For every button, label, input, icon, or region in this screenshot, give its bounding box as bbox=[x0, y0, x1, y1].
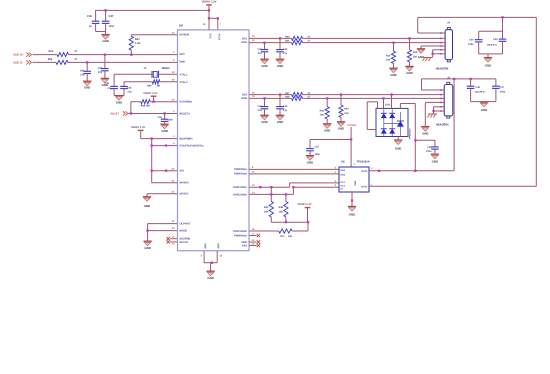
svg-text:100n: 100n bbox=[500, 91, 506, 94]
svg-text:100n: 100n bbox=[109, 25, 115, 28]
svg-text:EXTMEMn: EXTMEMn bbox=[180, 101, 193, 104]
svg-text:GND: GND bbox=[422, 132, 428, 136]
svg-text:C39: C39 bbox=[283, 48, 288, 51]
svg-text:R90: R90 bbox=[147, 84, 152, 87]
svg-text:GND: GND bbox=[84, 86, 90, 90]
svg-text:27p: 27p bbox=[283, 52, 288, 55]
svg-text:GND: GND bbox=[116, 100, 122, 104]
svg-text:GND: GND bbox=[307, 161, 313, 165]
svg-text:R38: R38 bbox=[285, 96, 290, 99]
svg-text:GND: GND bbox=[261, 120, 267, 124]
svg-text:GND: GND bbox=[406, 71, 412, 75]
svg-text:OUT1: OUT1 bbox=[361, 186, 368, 189]
svg-text:100n: 100n bbox=[315, 153, 321, 156]
svg-text:GND: GND bbox=[481, 108, 487, 112]
svg-text:DP3: DP3 bbox=[242, 244, 248, 247]
svg-text:C37: C37 bbox=[109, 15, 114, 18]
svg-text:GND: GND bbox=[102, 39, 108, 43]
svg-text:EN1: EN1 bbox=[341, 169, 346, 172]
svg-text:MODE: MODE bbox=[180, 230, 188, 233]
svg-text:OC1: OC1 bbox=[341, 181, 346, 184]
svg-text:15K: 15K bbox=[413, 55, 418, 58]
svg-text:OUT2: OUT2 bbox=[361, 170, 368, 173]
svg-text:RESET: RESET bbox=[111, 113, 120, 116]
svg-text:C45: C45 bbox=[493, 38, 498, 41]
svg-text:OC2: OC2 bbox=[341, 184, 346, 187]
svg-text:15K: 15K bbox=[279, 210, 284, 213]
svg-text:PWRON2n: PWRON2n bbox=[234, 173, 247, 176]
svg-text:GND: GND bbox=[144, 246, 150, 250]
svg-text:GND: GND bbox=[204, 243, 207, 249]
svg-text:R40: R40 bbox=[264, 206, 269, 209]
svg-text:VDDIO 3.3V: VDDIO 3.3V bbox=[143, 92, 158, 95]
svg-text:15K: 15K bbox=[386, 59, 391, 62]
svg-text:27p: 27p bbox=[128, 91, 133, 94]
svg-text:C41: C41 bbox=[80, 70, 85, 73]
svg-text:VDDIO 3.3V: VDDIO 3.3V bbox=[202, 1, 217, 4]
svg-text:EECLK: EECLK bbox=[180, 241, 189, 244]
svg-text:RESETn: RESETn bbox=[180, 112, 191, 115]
svg-text:GND: GND bbox=[324, 128, 330, 132]
svg-text:GND: GND bbox=[485, 63, 491, 67]
svg-text:R46: R46 bbox=[279, 206, 284, 209]
svg-text:27p: 27p bbox=[107, 87, 112, 90]
svg-text:EN2: EN2 bbox=[341, 173, 346, 176]
svg-text:GND: GND bbox=[161, 129, 167, 133]
svg-text:R44: R44 bbox=[344, 108, 349, 111]
svg-text:GND: GND bbox=[144, 204, 150, 208]
svg-text:GND: GND bbox=[277, 120, 283, 124]
svg-text:C46: C46 bbox=[476, 86, 481, 89]
svg-text:GND: GND bbox=[277, 64, 283, 68]
svg-text:27p: 27p bbox=[258, 52, 263, 55]
svg-text:120uF6.3v: 120uF6.3v bbox=[487, 43, 498, 46]
svg-text:15K: 15K bbox=[264, 210, 269, 213]
svg-text:R30: R30 bbox=[285, 36, 290, 39]
svg-text:R35: R35 bbox=[413, 51, 418, 54]
svg-text:HEADER6: HEADER6 bbox=[436, 123, 449, 126]
svg-text:VDDIO 3.3V: VDDIO 3.3V bbox=[131, 126, 146, 129]
svg-text:PWRON1n: PWRON1n bbox=[234, 168, 247, 171]
svg-text:1M: 1M bbox=[157, 84, 160, 87]
svg-text:DP2: DP2 bbox=[242, 94, 248, 97]
svg-text:GND: GND bbox=[418, 55, 424, 59]
svg-text:DP0: DP0 bbox=[180, 53, 186, 56]
svg-text:GND: GND bbox=[261, 64, 267, 68]
svg-text:OVRCUR2n: OVRCUR2n bbox=[233, 193, 248, 196]
svg-text:PWRON3n: PWRON3n bbox=[234, 234, 247, 237]
svg-text:27p: 27p bbox=[283, 109, 288, 112]
svg-text:USB_D-: USB_D- bbox=[13, 62, 23, 65]
svg-text:DA1: DA1 bbox=[385, 104, 391, 107]
svg-text:27p: 27p bbox=[98, 71, 103, 74]
svg-text:DM2: DM2 bbox=[242, 97, 248, 100]
svg-text:GND: GND bbox=[432, 160, 438, 164]
svg-text:XTAL2: XTAL2 bbox=[180, 81, 189, 84]
svg-text:27p: 27p bbox=[80, 74, 85, 77]
svg-text:C47: C47 bbox=[500, 86, 505, 89]
svg-text:TPS2042A: TPS2042A bbox=[357, 161, 370, 164]
svg-text:100n: 100n bbox=[426, 150, 432, 153]
svg-text:GND: GND bbox=[395, 146, 401, 150]
svg-text:NPINT1: NPINT1 bbox=[180, 193, 190, 196]
svg-text:OVRCUR1n: OVRCUR1n bbox=[233, 186, 248, 189]
svg-text:R87: R87 bbox=[135, 38, 140, 41]
svg-text:DM0: DM0 bbox=[180, 61, 186, 64]
svg-text:USB_D+: USB_D+ bbox=[13, 53, 24, 56]
svg-text:C38: C38 bbox=[257, 48, 262, 51]
svg-text:DM1: DM1 bbox=[242, 41, 248, 44]
svg-text:TPD4S012: TPD4S012 bbox=[409, 128, 412, 139]
svg-text:VCC: VCC bbox=[209, 34, 212, 39]
svg-text:EXDATA/GANGEDn: EXDATA/GANGEDn bbox=[180, 145, 204, 148]
svg-text:C36: C36 bbox=[87, 15, 92, 18]
svg-text:XTAL1: XTAL1 bbox=[180, 73, 189, 76]
svg-text:BUSPWRn: BUSPWRn bbox=[180, 138, 194, 141]
svg-text:R37: R37 bbox=[285, 92, 290, 95]
svg-text:C40: C40 bbox=[105, 82, 110, 85]
svg-text:OCPROT: OCPROT bbox=[180, 223, 192, 226]
svg-text:SP1: SP1 bbox=[180, 170, 185, 173]
svg-text:10K: 10K bbox=[288, 235, 293, 238]
svg-text:HEADER6: HEADER6 bbox=[436, 67, 449, 70]
svg-text:C51: C51 bbox=[315, 146, 320, 149]
svg-text:NPINT0: NPINT0 bbox=[180, 182, 190, 185]
svg-text:GND: GND bbox=[390, 73, 396, 77]
svg-text:R34: R34 bbox=[386, 54, 391, 57]
svg-text:GND: GND bbox=[354, 180, 357, 185]
svg-text:C49: C49 bbox=[283, 105, 288, 108]
svg-text:100n: 100n bbox=[468, 43, 474, 46]
svg-text:GND: GND bbox=[349, 212, 355, 216]
svg-text:U6: U6 bbox=[179, 23, 183, 27]
svg-text:VCCA: VCCA bbox=[217, 34, 220, 41]
svg-text:C43: C43 bbox=[127, 87, 132, 90]
svg-text:120uF6.3v: 120uF6.3v bbox=[475, 91, 486, 94]
svg-text:15K: 15K bbox=[344, 112, 349, 115]
svg-text:DP/PUR: DP/PUR bbox=[180, 34, 190, 37]
svg-text:R22: R22 bbox=[49, 50, 54, 53]
svg-text:C42: C42 bbox=[98, 67, 103, 70]
svg-text:R88 10K: R88 10K bbox=[141, 105, 151, 108]
svg-text:R26: R26 bbox=[48, 58, 53, 61]
svg-text:VLOAD: VLOAD bbox=[347, 124, 356, 127]
svg-text:VDDIO 3.3V: VDDIO 3.3V bbox=[297, 203, 312, 206]
svg-text:48MHZ: 48MHZ bbox=[162, 67, 171, 70]
svg-text:GND: GND bbox=[338, 126, 344, 130]
svg-text:R42: R42 bbox=[320, 109, 325, 112]
svg-text:1.5K: 1.5K bbox=[135, 42, 141, 45]
svg-text:15K: 15K bbox=[320, 114, 325, 117]
svg-text:GND: GND bbox=[217, 243, 220, 249]
svg-text:1u: 1u bbox=[89, 25, 92, 28]
svg-text:OVRCUR3n: OVRCUR3n bbox=[233, 230, 248, 233]
svg-text:R31: R31 bbox=[285, 39, 290, 42]
svg-text:27p: 27p bbox=[258, 109, 263, 112]
svg-text:C48: C48 bbox=[257, 105, 262, 108]
svg-text:R47: R47 bbox=[280, 235, 285, 238]
svg-text:U8: U8 bbox=[341, 161, 345, 164]
svg-text:C52: C52 bbox=[427, 146, 432, 149]
svg-text:DP1: DP1 bbox=[242, 37, 248, 40]
svg-text:GND: GND bbox=[207, 276, 213, 280]
svg-text:100n: 100n bbox=[168, 119, 174, 122]
svg-text:C44: C44 bbox=[469, 39, 474, 42]
svg-text:C62: C62 bbox=[158, 116, 163, 119]
